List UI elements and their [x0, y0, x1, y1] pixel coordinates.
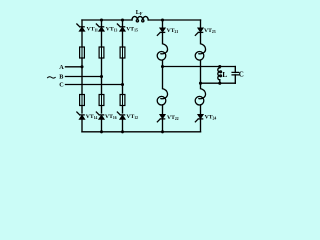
svg-text:C: C [59, 82, 63, 89]
wire: phase A input line [66, 66, 83, 68]
node dot bottom rail branch3 [121, 130, 124, 133]
wire: load upper conductor [163, 66, 236, 68]
inductor L coil [218, 68, 220, 80]
thyristor VT24 [195, 114, 204, 122]
wire: top DC+ rail left section [82, 19, 132, 21]
node dot bottom rail branch2 [100, 130, 103, 133]
fuse branch3 upper [120, 47, 125, 58]
fuse branch2 upper [99, 47, 104, 58]
capacitor C plates [232, 72, 239, 75]
wire: phase C input line [66, 84, 123, 86]
node dot bottom rail leg1 [161, 130, 164, 133]
node dot top rail leg1 [161, 18, 164, 21]
reactor loop leg1 lower [157, 89, 167, 105]
wire: inverter left leg (x=162.5) [162, 20, 164, 132]
thyristor VT14 [76, 112, 85, 120]
fuse branch2 lower [99, 95, 104, 106]
reactor loop leg2 upper [195, 44, 205, 60]
svg-text:L: L [222, 70, 227, 79]
capacitor C leads [234, 67, 236, 84]
node dot phase C [121, 83, 124, 86]
fuse branch3 lower [120, 95, 125, 106]
node dot phase B [100, 75, 103, 78]
node dot top rail branch3 [121, 18, 124, 21]
thyristor VT13 [96, 24, 105, 32]
svg-text:B: B [59, 74, 63, 81]
wire: load lower conductor [201, 82, 236, 84]
node dot L bottom [218, 82, 221, 85]
fuse branch1 lower [80, 95, 85, 106]
thyristor VT21 [157, 28, 166, 36]
thyristor VT11 [76, 24, 85, 32]
wire: top DC+ rail right section [148, 19, 200, 21]
thyristor VT12 [117, 112, 126, 120]
node dot load lower leg2 [199, 82, 202, 85]
svg-text:LF: LF [136, 10, 143, 16]
inductor LF (filter reactor) [132, 16, 148, 20]
wire: rectifier branch 2 (phase B leg, x=101.5) [101, 20, 103, 132]
reactor loop leg2 lower [195, 89, 205, 105]
wire: phase B input line [66, 76, 102, 78]
svg-text:C: C [239, 71, 244, 79]
fuse branch1 upper [80, 47, 85, 58]
thyristor VT22 [157, 114, 166, 122]
thyristor VT15 [117, 24, 126, 32]
node dot top rail branch2 [100, 18, 103, 21]
node dot phase A [80, 65, 83, 68]
wire: inverter right leg (x=200.5) [200, 20, 202, 132]
thyristor VT16 [96, 112, 105, 120]
reactor loop leg1 upper [157, 44, 167, 60]
wire: bottom DC- rail [82, 131, 201, 133]
wire: rectifier branch 3 (phase C leg, x=122.5) [122, 20, 124, 132]
label ~ (AC source) [47, 77, 55, 78]
wire: rectifier branch 1 (phase A leg, x=82) [81, 20, 83, 132]
node dot L top [218, 65, 221, 68]
thyristor VT23 [195, 28, 204, 36]
svg-text:A: A [59, 64, 64, 71]
inductor L leads [219, 67, 221, 84]
node dot load upper leg1 [161, 65, 164, 68]
